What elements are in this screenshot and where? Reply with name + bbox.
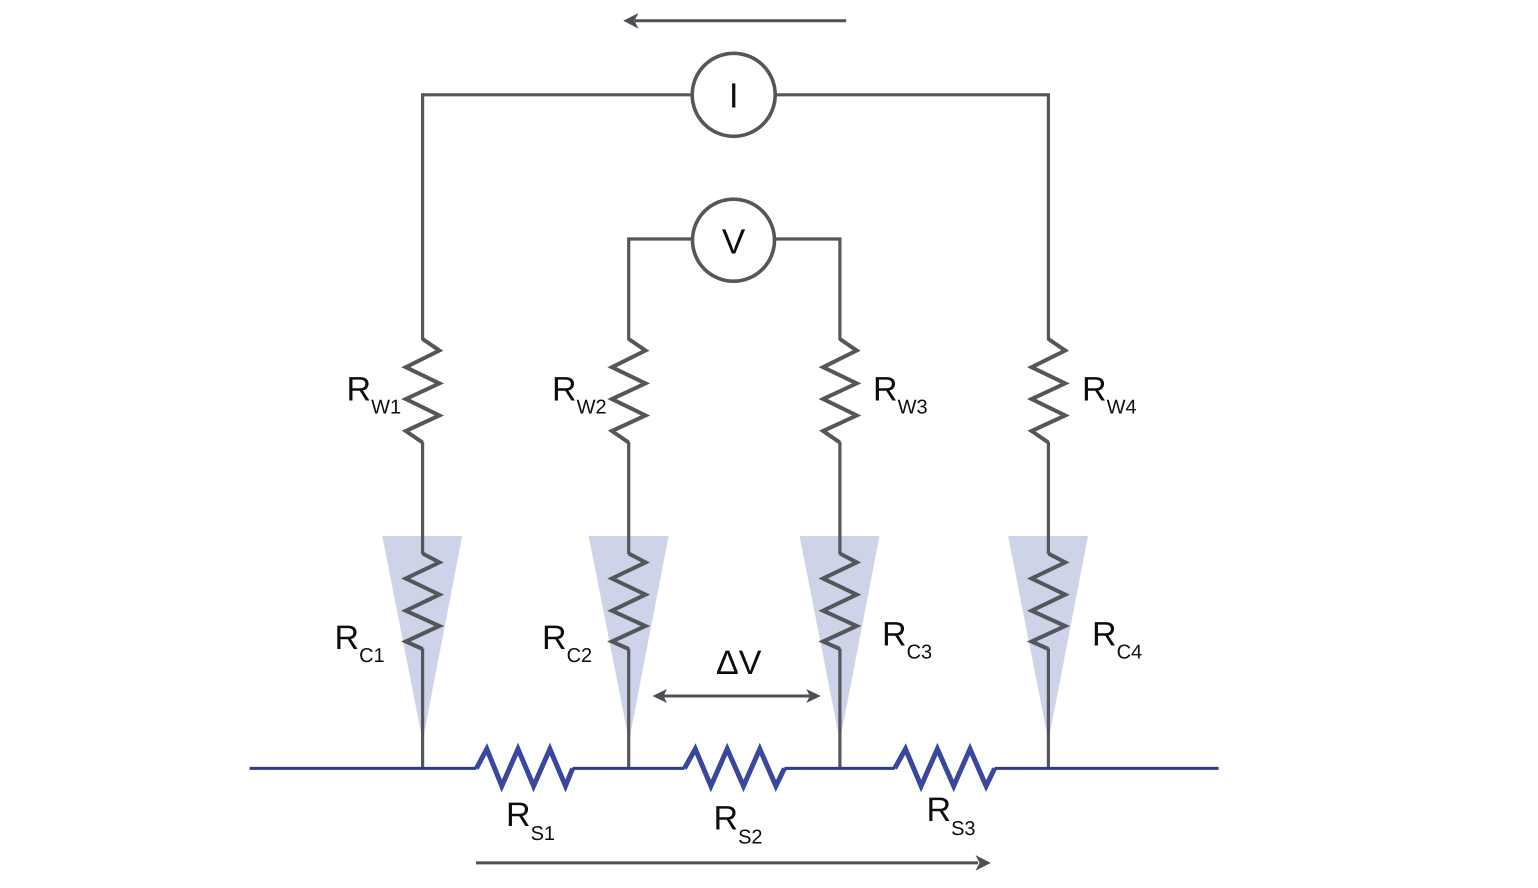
wire: sample line left segment — [250, 767, 477, 770]
svg-text:RW2: RW2 — [552, 371, 607, 419]
probe tip 4 — [1008, 536, 1088, 741]
probe tip 2 — [589, 536, 669, 741]
wire: P2 vertical middle segment — [627, 442, 630, 554]
resistor RS1 — [476, 749, 572, 786]
svg-text:V: V — [722, 223, 746, 262]
wire: P4 vertical upper segment — [1047, 93, 1050, 340]
wire: P3 vertical lower segment to sample — [838, 649, 841, 768]
wire: voltmeter right horizontal (voltmeter to P3) — [775, 237, 840, 240]
svg-text:RS2: RS2 — [714, 800, 763, 849]
wire: P1 vertical middle segment — [421, 442, 424, 554]
svg-text:RS1: RS1 — [506, 796, 555, 845]
resistor RC2 — [612, 554, 646, 650]
resistor RC1 — [406, 554, 440, 650]
wire: P3 vertical middle segment — [838, 442, 841, 554]
svg-text:RC1: RC1 — [335, 619, 385, 667]
dimension arrow deltaV — [653, 689, 821, 703]
voltmeter V — [693, 199, 775, 281]
svg-text:RS3: RS3 — [927, 791, 976, 840]
svg-text:I: I — [729, 77, 739, 116]
svg-text:RW1: RW1 — [347, 371, 402, 419]
svg-text:ΔV: ΔV — [716, 644, 762, 682]
wire: P3 vertical upper segment — [838, 237, 841, 340]
wire: P2 vertical lower segment to sample — [627, 649, 630, 768]
wire: sample line segment P3 — [784, 767, 894, 770]
resistor RW1 — [406, 339, 440, 443]
current direction arrow (top) — [623, 13, 846, 29]
wire: P2 vertical upper segment — [627, 237, 630, 340]
resistor RW4 — [1032, 339, 1066, 443]
resistor RW3 — [823, 339, 857, 443]
resistor RC3 — [823, 554, 857, 650]
resistor RS2 — [685, 749, 785, 786]
resistor RC4 — [1032, 554, 1066, 650]
svg-text:RC2: RC2 — [542, 619, 592, 667]
wire: top left horizontal (P1 to ammeter) — [423, 93, 693, 96]
probe-scan direction arrow (bottom) — [476, 855, 991, 871]
wire: P1 vertical lower segment to sample — [421, 649, 424, 768]
probe tip 1 — [382, 536, 462, 741]
wire: sample line segment P2 — [573, 767, 685, 770]
wire: P4 vertical lower segment to sample — [1047, 649, 1050, 768]
svg-text:RW3: RW3 — [873, 371, 928, 419]
resistor RW2 — [612, 339, 646, 443]
resistor RS3 — [895, 749, 995, 786]
wire: top right horizontal (ammeter to P4 corner) — [775, 93, 1048, 96]
svg-text:RW4: RW4 — [1082, 371, 1137, 419]
wire: sample line right segment — [995, 767, 1219, 770]
wire: P1 vertical upper segment — [421, 93, 424, 340]
svg-text:RC4: RC4 — [1092, 616, 1142, 664]
svg-text:RC3: RC3 — [882, 616, 932, 664]
wire: voltmeter left horizontal (P2 to voltmeter) — [629, 237, 693, 240]
ammeter I — [692, 53, 775, 136]
probe tip 3 — [800, 536, 880, 741]
wire: P4 vertical middle segment — [1047, 442, 1050, 554]
